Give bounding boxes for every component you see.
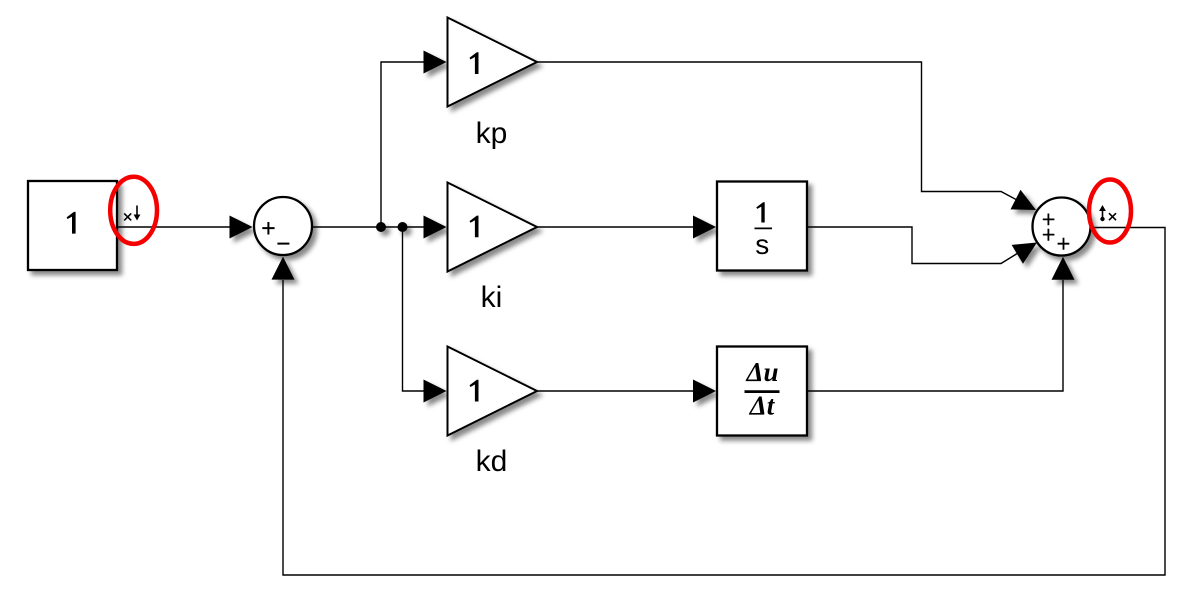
Sum2 plus sign 3 <box>1058 238 1070 250</box>
arrowhead Sum2 lower input <box>1012 233 1043 264</box>
arrowhead into kd <box>424 380 447 403</box>
wire branch up to kp gain <box>381 62 425 227</box>
arrowhead Sum1 bottom input <box>272 257 295 280</box>
Sum1 plus sign <box>262 222 274 235</box>
arrowhead into integrator <box>693 216 716 239</box>
wire branch down to kd gain <box>403 227 426 391</box>
svg-text:Δu: Δu <box>746 357 779 387</box>
sum block Sum1 (+ -) <box>254 197 312 255</box>
svg-text:kd: kd <box>476 445 508 478</box>
svg-text:kp: kp <box>476 117 508 150</box>
fraction bar Du/Dt <box>745 390 780 393</box>
label 1/s numerator <box>756 202 764 222</box>
arrowhead Sum2 upper input <box>1011 190 1041 220</box>
sum block Sum2 (+ + +) <box>1033 198 1091 256</box>
wire feedback Sum2 output to Sum1 <box>283 228 1165 576</box>
label 1 in kp <box>470 52 479 74</box>
red annotation ellipse left <box>110 177 157 244</box>
arrowhead Sum2 bottom input <box>1052 257 1075 280</box>
svg-text:ki: ki <box>481 281 503 314</box>
gain triangle kp <box>448 18 538 107</box>
arrowhead into kp <box>424 51 447 74</box>
shadowed shapes <box>28 18 1091 436</box>
annotation icon up-arrow-dot and x (right) <box>1103 211 1117 221</box>
svg-text:Δt: Δt <box>749 391 776 421</box>
label 1 in kd <box>470 380 479 402</box>
label 1 in ki <box>470 216 479 238</box>
gain triangle ki <box>448 183 538 272</box>
junction dot 2 <box>398 222 408 232</box>
arrowhead into Sum1 <box>230 216 253 239</box>
red annotation ellipse right <box>1089 180 1131 243</box>
constant block Constant (value 1) <box>28 181 117 270</box>
derivative block Du/Dt <box>717 347 807 436</box>
Sum2 plus sign 2 <box>1043 229 1055 241</box>
Sum1 minus sign <box>277 243 289 245</box>
wire kp gain to Sum2 upper input <box>537 62 1017 200</box>
wire ki gain to integrator <box>537 226 694 228</box>
integrator block 1/s <box>717 182 807 271</box>
wires (no shadow) <box>117 62 1165 575</box>
annotation icon x-down (left) <box>124 206 137 221</box>
wire Constant to Sum1 <box>117 226 232 228</box>
label 1 in Constant <box>67 212 76 234</box>
arrowhead into derivative <box>693 380 716 403</box>
gain triangle kd <box>448 347 538 436</box>
Sum2 plus sign 1 <box>1043 214 1055 226</box>
wire integrator to Sum2 lower input <box>807 227 1018 264</box>
arrowhead into ki <box>424 216 447 239</box>
wire kd gain to derivative <box>537 390 694 392</box>
fraction bar 1/s <box>755 227 773 229</box>
wire Sum1 output to ki gain <box>313 226 425 228</box>
svg-text:s: s <box>755 229 769 260</box>
junction dot 1 <box>376 222 386 232</box>
wire derivative to Sum2 bottom input <box>807 280 1063 391</box>
